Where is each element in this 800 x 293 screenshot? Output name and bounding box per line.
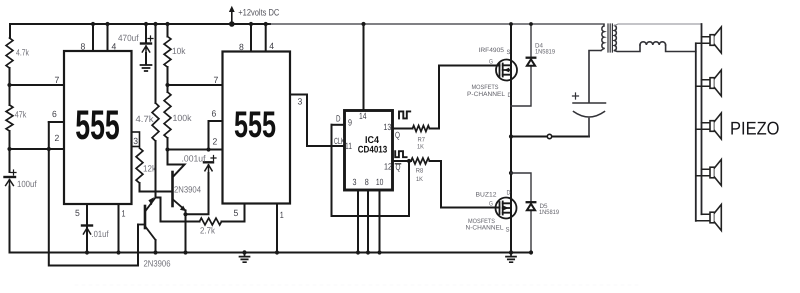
node rail 4.7k mid	[153, 22, 157, 26]
svg-text:5: 5	[75, 208, 80, 218]
node pin1 IC2 bus	[275, 250, 279, 254]
wire feedback Q-bar to D	[332, 125, 410, 216]
svg-text:7: 7	[214, 75, 219, 85]
wire top +12V rail left thick segment	[10, 23, 270, 25]
capacitor C 470uf	[141, 36, 153, 53]
transistor Q2 2N3906	[138, 197, 156, 240]
wire inductor to piezo rail L	[666, 45, 696, 52]
resistor 2.7k	[200, 218, 222, 225]
wire left supply column	[9, 24, 12, 172]
node junction pin7 IC2	[165, 83, 169, 87]
wire pin 1 IC2	[276, 204, 278, 253]
wire pin 7 IC1	[10, 84, 65, 86]
node pin3 IC4 bus	[356, 250, 360, 254]
svg-text:10k: 10k	[172, 46, 186, 56]
wire R7 to IRF gate	[430, 66, 500, 129]
svg-text:.01uf: .01uf	[92, 229, 109, 239]
squarewave glyph pin 12	[395, 151, 406, 157]
wire pin 8 IC4 to bus	[367, 190, 369, 253]
node junction 100k pin2	[165, 147, 169, 151]
node rail 10k	[165, 22, 169, 26]
wire 4.7k mid column top	[155, 24, 157, 103]
svg-text:2N3906: 2N3906	[144, 259, 171, 269]
wire pin 7 IC2	[168, 84, 223, 86]
IC2 555 box	[223, 52, 291, 204]
resistor 4.7k left	[6, 38, 13, 68]
node open circle output	[547, 134, 551, 138]
ground 470uf	[141, 65, 152, 71]
diode D4	[527, 58, 536, 66]
wire pin 6 IC1 jog	[49, 121, 64, 123]
wire drain column	[510, 24, 512, 253]
wire top rail thin right segment	[270, 23, 604, 25]
wire pin 4 IC2	[265, 24, 267, 52]
wire pin 2 IC2	[168, 149, 223, 151]
speaker SP5	[696, 205, 722, 231]
wire pin 9 D stub	[332, 124, 345, 126]
speaker SP1	[696, 27, 722, 53]
svg-text:100k: 100k	[173, 113, 192, 123]
wire bottom ground bus	[10, 252, 532, 254]
wire pin 3 IC4 to bus	[357, 190, 359, 253]
svg-text:.001uf: .001uf	[182, 154, 206, 164]
resistor 12k	[136, 148, 143, 183]
svg-text:CD4013: CD4013	[358, 145, 388, 156]
transformer T1 primary coil	[601, 24, 604, 50]
node BUZ source bus	[509, 250, 513, 254]
svg-text:2: 2	[213, 137, 218, 147]
svg-text:1N5819: 1N5819	[535, 49, 555, 56]
diode D5	[527, 202, 536, 210]
svg-text:1: 1	[280, 210, 284, 220]
wire secondary bottom to inductor	[615, 45, 641, 52]
node feedback tap	[407, 159, 411, 163]
node rail 470uf	[144, 22, 148, 26]
svg-text:100uf: 100uf	[17, 179, 37, 189]
svg-text:555: 555	[75, 101, 120, 148]
svg-text:R8: R8	[416, 168, 424, 175]
ground below BUZ12	[506, 253, 516, 263]
IC1 555 box	[64, 51, 132, 204]
svg-text:R7: R7	[418, 137, 426, 144]
node pin1 bus	[116, 250, 120, 254]
node junction pin7 left	[7, 83, 11, 87]
svg-text:CLK: CLK	[334, 136, 345, 146]
node D5 bus	[529, 250, 533, 254]
svg-text:3: 3	[298, 97, 303, 107]
transistor Q1 2N3904	[173, 172, 187, 211]
svg-text:5: 5	[234, 208, 239, 218]
node rail pin4 IC2	[264, 22, 268, 26]
wire R8 to BUZ gate	[430, 161, 500, 208]
wire 10k to 100k	[167, 67, 169, 92]
capacitor C 100uf	[5, 170, 17, 187]
label Q-bar output	[395, 162, 400, 172]
wire piezo rail R	[701, 24, 703, 214]
wire output node to transformer cap	[511, 136, 589, 138]
svg-text:8: 8	[365, 177, 369, 187]
faint scan line bottom	[75, 284, 640, 286]
inductor L1	[640, 42, 666, 45]
svg-text:4: 4	[269, 41, 274, 51]
svg-text:12: 12	[384, 162, 392, 172]
svg-text:D: D	[507, 190, 511, 197]
node pin5 bus	[85, 250, 89, 254]
svg-text:4: 4	[112, 42, 117, 52]
svg-text:11: 11	[345, 141, 352, 151]
wire pin 14 IC4	[363, 24, 365, 111]
speaker SP4	[696, 160, 722, 186]
wire pin6-to-base long drop	[49, 122, 138, 266]
wire emitter to cap .001uf	[186, 173, 209, 214]
svg-text:Q: Q	[395, 130, 400, 140]
wire left column to ground bus	[9, 187, 11, 253]
svg-text:555: 555	[234, 104, 276, 145]
svg-text:PIEZO: PIEZO	[730, 118, 780, 139]
svg-text:3: 3	[353, 177, 357, 187]
svg-text:G: G	[489, 59, 493, 66]
capacitor C 470uf branch	[145, 24, 147, 43]
svg-text:6: 6	[212, 109, 217, 119]
svg-text:4.7k: 4.7k	[136, 114, 155, 124]
wire 4.7k to Q2 emitter node	[155, 141, 157, 197]
svg-text:S: S	[507, 49, 511, 56]
op mosfet U IRF4905 symbol	[496, 60, 517, 81]
svg-text:1: 1	[122, 209, 126, 219]
svg-text:MOSFETS: MOSFETS	[472, 84, 499, 91]
node drain D5	[509, 171, 513, 175]
svg-text:6: 6	[52, 109, 57, 119]
wire pin 8 IC1	[92, 24, 94, 51]
svg-text:2: 2	[55, 133, 60, 143]
node Q2 collector bus	[153, 250, 157, 254]
wire diode D5 branch	[511, 173, 531, 253]
svg-text:4.7k: 4.7k	[16, 48, 29, 58]
wire Q1 emitter drop	[185, 211, 187, 253]
node Q1 emitter	[183, 212, 187, 216]
capacitor C .001uf	[204, 156, 216, 174]
wire pin 3 IC2 to CLK	[290, 95, 345, 147]
node Q1 emitter bus	[183, 250, 187, 254]
wire pin 4 IC1	[107, 24, 109, 51]
node rail pin8 IC1	[91, 22, 95, 26]
node ground bus center	[242, 250, 246, 254]
svg-text:47k: 47k	[15, 110, 27, 120]
wire 10k column	[167, 24, 169, 37]
wire pin 2/6 IC1	[10, 148, 65, 150]
wire secondary top to piezo rail	[615, 24, 702, 26]
node rail pin14	[361, 22, 365, 26]
wire pin 6 IC2 jog	[209, 121, 223, 150]
resistor 4.7k mid	[152, 103, 159, 141]
wire 12k to Q1 base	[140, 183, 172, 192]
resistor 100k	[164, 92, 171, 138]
transformer T1 secondary coil	[615, 26, 617, 51]
wire emitter node jog to 2.7k line	[156, 198, 200, 222]
svg-text:BUZ12: BUZ12	[476, 192, 498, 199]
svg-text:12k: 12k	[143, 164, 156, 174]
wire pin 10 IC4 to bus	[379, 190, 381, 253]
svg-text:8: 8	[81, 42, 86, 52]
svg-text:2N3904: 2N3904	[174, 185, 201, 195]
svg-text:2.7k: 2.7k	[200, 226, 215, 236]
svg-text:S: S	[506, 227, 510, 234]
wire pin 8 IC2	[250, 24, 252, 52]
node pin8 IC4 bus	[366, 250, 370, 254]
svg-text:D: D	[336, 114, 341, 124]
svg-text:P-CHANNEL: P-CHANNEL	[467, 91, 506, 98]
svg-text:G: G	[489, 201, 493, 208]
wire Q1 collector path	[168, 150, 185, 177]
IC4 CD4013 box	[345, 111, 393, 191]
speaker SP2	[696, 70, 722, 96]
wire piezo rail L	[695, 43, 697, 221]
svg-text:3: 3	[133, 136, 138, 146]
wire pin 5 IC1	[86, 204, 88, 253]
svg-text:N-CHANNEL: N-CHANNEL	[466, 225, 505, 232]
svg-text:1N5819: 1N5819	[539, 209, 559, 216]
wire 2.7k to pin 5 IC2	[222, 204, 245, 222]
svg-text:9: 9	[348, 118, 352, 128]
node rail IRF source	[509, 22, 513, 26]
svg-text:1K: 1K	[416, 176, 424, 183]
svg-text:8: 8	[239, 42, 244, 52]
node rail D4	[529, 22, 533, 26]
svg-text:13: 13	[383, 122, 391, 132]
node junction pin2 left	[7, 147, 11, 151]
node rail pin4 IC1	[105, 22, 109, 26]
svg-text:14: 14	[359, 111, 367, 121]
resistor R8	[411, 158, 430, 164]
svg-text:7: 7	[55, 75, 60, 85]
wire diode D4 branch	[511, 24, 531, 106]
node rail pin8 IC2	[249, 22, 253, 26]
node cap .001uf pin2 wire	[206, 147, 210, 151]
resistor 47k	[6, 105, 13, 131]
svg-text:470uf: 470uf	[118, 33, 139, 43]
svg-text:IRF4905: IRF4905	[479, 47, 505, 54]
node drain output	[509, 134, 513, 138]
resistor 10k	[164, 37, 171, 68]
wire pin 13 to R7	[393, 128, 413, 130]
wire cap to primary bottom	[589, 51, 601, 137]
wire 100k to pin2 node	[167, 138, 169, 150]
transformer T1 core	[608, 24, 612, 52]
power +12V arrow	[229, 6, 235, 27]
ground bus center	[240, 253, 250, 263]
wire Q2 collector to bus	[155, 240, 157, 253]
wire pin 1 IC1	[118, 204, 120, 253]
wire 470uf to ground	[145, 53, 147, 65]
node pin10 IC4 bus	[377, 250, 381, 254]
wire pin 12 to R8	[393, 160, 412, 162]
pin 3 IC1 boxed	[132, 132, 140, 147]
capacitor output +	[573, 93, 606, 117]
resistor R7	[413, 126, 430, 132]
op mosfet U BUZ12 symbol	[496, 198, 517, 219]
node junction pin6/pin2	[47, 147, 51, 151]
svg-text:10: 10	[376, 177, 384, 187]
squarewave glyph pin 13	[399, 111, 410, 118]
svg-text:1K: 1K	[417, 144, 425, 151]
capacitor C .01uf	[82, 226, 92, 235]
speaker SP3	[696, 113, 722, 139]
svg-text:+12volts DC: +12volts DC	[238, 6, 279, 17]
